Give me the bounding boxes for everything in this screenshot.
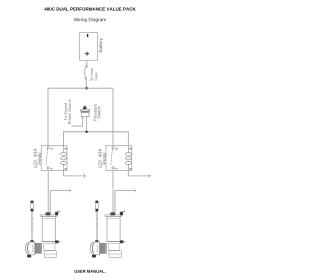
wire K1 87 to compressor 1 — [47, 170, 49, 213]
relay K2 label — [98, 149, 106, 168]
battery label — [99, 38, 103, 52]
ground chassis 1 — [83, 174, 86, 179]
wire pressure switch to coil bus — [86, 118, 88, 132]
label to keyed power source — [64, 99, 71, 124]
wire K2 coil 85 to ground — [128, 170, 147, 176]
wire battery to fuse — [86, 60, 88, 65]
wire compressor 1 ground lead — [50, 191, 68, 214]
ground chassis 2 — [148, 174, 151, 179]
fuse F1 — [84, 66, 87, 80]
compressor 1 — [25, 201, 60, 258]
relay K1 label — [34, 149, 42, 168]
node fused power junction — [85, 87, 88, 90]
footer — [75, 270, 106, 273]
pressure switch label — [94, 104, 101, 121]
wire power bus to relay contacts — [48, 88, 113, 145]
wire fuse to junction — [85, 79, 88, 88]
pressure switch PS1 — [80, 106, 90, 118]
relay K2 — [106, 146, 132, 171]
wire compressor 2 ground lead — [115, 191, 133, 214]
wire keyed power stub — [72, 118, 83, 126]
relay K1 — [41, 146, 67, 171]
compressor 2 — [90, 201, 125, 258]
subtitle — [74, 18, 106, 22]
title — [44, 7, 135, 10]
wire K2 87 to compressor 2 — [112, 170, 114, 213]
fuse label — [90, 68, 97, 80]
node coil bus junction — [85, 131, 87, 133]
ground chassis 4 — [134, 188, 137, 193]
ground chassis 3 — [69, 188, 72, 193]
battery B1 — [80, 33, 98, 61]
wire coil bus — [64, 132, 129, 146]
wire K1 coil 85 to ground — [64, 170, 83, 176]
